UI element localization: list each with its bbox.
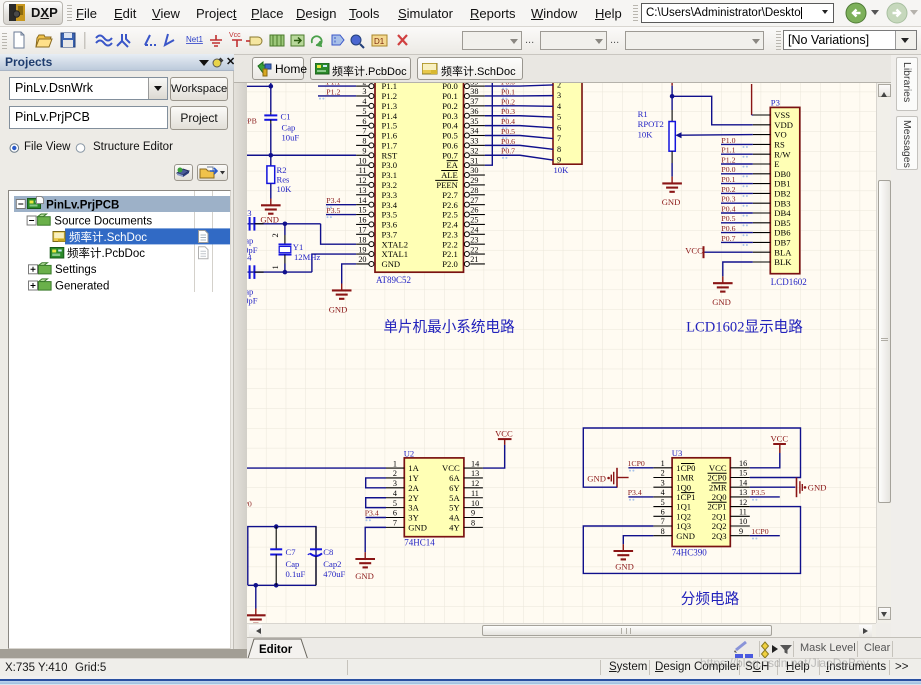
svg-text:16: 16 [739, 459, 747, 468]
svg-text:P3.5: P3.5 [751, 488, 765, 497]
svg-text:P1.3: P1.3 [382, 101, 398, 111]
svg-text:4: 4 [362, 97, 366, 106]
svg-text:P3.1: P3.1 [382, 170, 398, 180]
svg-text:1CP0: 1CP0 [676, 463, 695, 473]
svg-text:DB2: DB2 [774, 189, 790, 199]
svg-text:P3.7: P3.7 [382, 229, 398, 239]
svg-text:PEEN: PEEN [436, 180, 458, 190]
svg-text:GND: GND [587, 474, 606, 484]
svg-text:2Q3: 2Q3 [712, 531, 727, 541]
svg-text:3: 3 [661, 478, 665, 487]
svg-text:8: 8 [362, 137, 366, 146]
svg-text:DB7: DB7 [774, 238, 791, 248]
svg-text:GND: GND [808, 483, 827, 493]
svg-text:P0.1: P0.1 [442, 91, 458, 101]
svg-text:16: 16 [358, 216, 366, 225]
svg-text:P2.4: P2.4 [442, 220, 458, 230]
svg-text:GND: GND [676, 531, 695, 541]
svg-text:25: 25 [470, 216, 478, 225]
svg-text:P1.2: P1.2 [326, 87, 340, 96]
svg-text:P0.1: P0.1 [721, 175, 735, 184]
svg-text:3: 3 [362, 87, 366, 96]
svg-text:22: 22 [470, 245, 478, 254]
svg-text:P0.2: P0.2 [442, 101, 458, 111]
svg-text:5: 5 [362, 107, 366, 116]
svg-text:DB5: DB5 [774, 218, 790, 228]
svg-text:GND: GND [260, 214, 279, 224]
svg-text:17: 17 [358, 226, 366, 235]
svg-text:GND: GND [382, 259, 401, 269]
svg-text:2CP0: 2CP0 [707, 473, 726, 483]
svg-text:C7: C7 [286, 547, 297, 557]
svg-text:P0.0: P0.0 [442, 83, 458, 91]
svg-text:9: 9 [362, 146, 366, 155]
svg-text:P2.7: P2.7 [442, 190, 458, 200]
svg-text:P0.7: P0.7 [721, 234, 735, 243]
svg-text:P0.4: P0.4 [721, 204, 735, 213]
svg-text:2: 2 [661, 469, 665, 478]
svg-text:VCC: VCC [442, 463, 460, 473]
svg-text:3: 3 [557, 91, 561, 100]
svg-text:11: 11 [471, 489, 479, 498]
svg-text:P2.5: P2.5 [442, 210, 458, 220]
svg-text:4: 4 [557, 102, 561, 111]
svg-text:R1: R1 [638, 109, 648, 119]
svg-text:P3.4: P3.4 [326, 196, 340, 205]
svg-text:DB3: DB3 [774, 198, 790, 208]
svg-text:P1.1: P1.1 [382, 83, 398, 91]
svg-text:1CP0: 1CP0 [628, 459, 645, 468]
svg-text:频率计.PcbDoc: 频率计.PcbDoc [67, 246, 145, 260]
svg-text:GND: GND [712, 297, 731, 307]
svg-text:Cap: Cap [286, 559, 300, 569]
svg-text:4: 4 [661, 488, 665, 497]
svg-text:3A: 3A [408, 503, 419, 513]
svg-text:14: 14 [358, 196, 366, 205]
svg-text:11: 11 [739, 508, 747, 517]
svg-text:2: 2 [557, 83, 561, 90]
svg-text:74HC14: 74HC14 [404, 538, 435, 548]
svg-text:38: 38 [470, 87, 478, 96]
svg-text:P0.5: P0.5 [721, 214, 735, 223]
svg-text:P0.5: P0.5 [442, 131, 458, 141]
svg-text:DB1: DB1 [774, 179, 790, 189]
svg-text:5: 5 [557, 113, 561, 122]
svg-text:0.1uF: 0.1uF [286, 569, 306, 579]
svg-text:14: 14 [471, 459, 479, 468]
svg-text:20: 20 [358, 255, 366, 264]
svg-text:P3.4: P3.4 [628, 488, 642, 497]
svg-text:P3.6: P3.6 [382, 220, 398, 230]
svg-text:VCC: VCC [685, 245, 703, 255]
svg-text:28: 28 [470, 186, 478, 195]
svg-text:30pF: 30pF [247, 296, 258, 306]
svg-text:36: 36 [470, 107, 478, 116]
svg-text:8: 8 [661, 527, 665, 536]
svg-text:C1: C1 [281, 112, 291, 122]
svg-text:P0.1: P0.1 [501, 87, 515, 96]
svg-text:5A: 5A [449, 493, 460, 503]
svg-text:P1.2: P1.2 [382, 91, 398, 101]
svg-text:P3.4: P3.4 [382, 200, 398, 210]
svg-text:26: 26 [470, 206, 478, 215]
svg-text:C3: C3 [247, 208, 252, 218]
svg-text:12: 12 [358, 176, 366, 185]
svg-text:Net1: Net1 [186, 35, 203, 44]
svg-text:23: 23 [470, 235, 478, 244]
svg-text:1: 1 [393, 459, 397, 468]
svg-text:P1.1: P1.1 [326, 83, 340, 87]
svg-text:34: 34 [470, 127, 478, 136]
svg-text:P2.2: P2.2 [442, 239, 458, 249]
svg-text:1: 1 [661, 459, 665, 468]
svg-text:19: 19 [358, 245, 366, 254]
svg-text:VO: VO [774, 130, 786, 140]
svg-text:6A: 6A [449, 473, 460, 483]
svg-text:P0.7: P0.7 [442, 150, 458, 160]
svg-text:4: 4 [393, 489, 397, 498]
svg-text:1A: 1A [408, 463, 419, 473]
svg-text:PB: PB [247, 116, 257, 125]
svg-text:GND: GND [355, 571, 374, 581]
svg-text:P0.2: P0.2 [721, 185, 735, 194]
svg-text:LCD1602: LCD1602 [771, 277, 807, 287]
svg-text:2Y: 2Y [408, 493, 419, 503]
svg-text:P1.5: P1.5 [382, 121, 398, 131]
svg-text:EA: EA [446, 160, 458, 170]
svg-text:9: 9 [557, 156, 561, 165]
svg-text:11: 11 [359, 166, 367, 175]
svg-text:Vcc: Vcc [229, 32, 241, 39]
svg-text:1Q1: 1Q1 [676, 502, 691, 512]
svg-text:P2.6: P2.6 [442, 200, 458, 210]
svg-text:GND: GND [408, 522, 427, 532]
svg-text:DB4: DB4 [774, 208, 791, 218]
svg-text:P3.3: P3.3 [382, 190, 398, 200]
svg-text:7: 7 [661, 517, 665, 526]
svg-text:P1.1: P1.1 [721, 146, 735, 155]
svg-text:30: 30 [470, 166, 478, 175]
svg-text:32: 32 [470, 146, 478, 155]
svg-text:Source Documents: Source Documents [54, 216, 152, 228]
svg-text:P0.0: P0.0 [501, 83, 515, 87]
svg-text:GND: GND [615, 561, 634, 571]
svg-text:分频电路: 分频电路 [681, 591, 740, 608]
svg-text:RST: RST [382, 150, 399, 160]
svg-text:35: 35 [470, 117, 478, 126]
svg-text:1CP1: 1CP1 [676, 492, 695, 502]
svg-text:XTAL2: XTAL2 [382, 239, 409, 249]
svg-text:2CP1: 2CP1 [707, 502, 726, 512]
svg-text:BLK: BLK [774, 257, 792, 267]
svg-text:P0.7: P0.7 [501, 147, 515, 156]
svg-text:39: 39 [470, 83, 478, 86]
svg-text:P3.4: P3.4 [365, 509, 379, 518]
svg-text:P0.3: P0.3 [442, 111, 458, 121]
svg-text:2Q1: 2Q1 [712, 511, 727, 521]
svg-text:P0.4: P0.4 [442, 121, 458, 131]
svg-text:10K: 10K [638, 129, 654, 139]
svg-text:1: 1 [270, 265, 280, 269]
svg-text:R/W: R/W [774, 149, 791, 159]
svg-text:470uF: 470uF [323, 569, 345, 579]
svg-text:8: 8 [471, 519, 475, 528]
svg-text:15: 15 [358, 206, 366, 215]
svg-text:GND: GND [329, 305, 348, 315]
svg-text:BLA: BLA [774, 247, 792, 257]
svg-text:7: 7 [557, 134, 561, 143]
svg-text:14: 14 [739, 478, 747, 487]
svg-text:1MR: 1MR [676, 473, 694, 483]
svg-text:P0.3: P0.3 [501, 107, 515, 116]
svg-text:C8: C8 [323, 547, 333, 557]
svg-text:VCC: VCC [770, 433, 788, 443]
svg-text:VDD: VDD [774, 120, 793, 130]
svg-text:P1.2: P1.2 [721, 155, 735, 164]
svg-text:VCC: VCC [495, 429, 513, 439]
svg-text:10K: 10K [554, 165, 570, 175]
svg-text:LCD1602显示电路: LCD1602显示电路 [686, 318, 803, 335]
svg-text:P0.5: P0.5 [501, 127, 515, 136]
svg-text:18: 18 [358, 235, 366, 244]
svg-text:频率计.SchDoc: 频率计.SchDoc [69, 230, 147, 244]
svg-text:33: 33 [470, 137, 478, 146]
svg-text:10: 10 [358, 156, 366, 165]
svg-text:GND: GND [662, 197, 681, 207]
svg-text:6: 6 [557, 123, 561, 132]
svg-text:13: 13 [471, 469, 479, 478]
svg-text:ALE: ALE [441, 170, 458, 180]
svg-text:9: 9 [471, 509, 475, 518]
svg-text:Cap2: Cap2 [323, 559, 341, 569]
svg-text:2: 2 [270, 233, 280, 237]
svg-text:Y1: Y1 [293, 242, 304, 252]
svg-text:24: 24 [470, 226, 478, 235]
svg-text:P0.0: P0.0 [721, 165, 735, 174]
svg-text:P0.6: P0.6 [501, 137, 515, 146]
svg-text:6Y: 6Y [449, 483, 460, 493]
svg-text:D1: D1 [374, 37, 385, 46]
svg-text:P2.1: P2.1 [442, 249, 458, 259]
svg-text:RS: RS [774, 140, 785, 150]
svg-text:DB0: DB0 [774, 169, 790, 179]
svg-text:13: 13 [739, 488, 747, 497]
svg-text:Generated: Generated [55, 280, 109, 292]
svg-text:27: 27 [470, 196, 478, 205]
svg-text:10: 10 [739, 517, 747, 526]
svg-text:P0.2: P0.2 [501, 97, 515, 106]
svg-text:3: 3 [393, 479, 397, 488]
svg-text:P3.0: P3.0 [382, 160, 398, 170]
svg-text:P1.7: P1.7 [382, 140, 398, 150]
svg-text:6: 6 [393, 509, 397, 518]
svg-text:U2: U2 [404, 448, 415, 458]
svg-text:PinLv.PrjPCB: PinLv.PrjPCB [46, 199, 119, 211]
svg-text:P0: P0 [247, 499, 252, 508]
svg-text:P0.4: P0.4 [501, 117, 515, 126]
svg-text:Settings: Settings [55, 264, 97, 276]
svg-text:12MHz: 12MHz [294, 252, 320, 262]
svg-text:9: 9 [739, 527, 743, 536]
svg-text:P0.6: P0.6 [442, 140, 458, 150]
svg-text:2Q2: 2Q2 [712, 521, 727, 531]
svg-text:P0.3: P0.3 [721, 195, 735, 204]
svg-text:AT89C52: AT89C52 [376, 275, 411, 285]
svg-text:P2.3: P2.3 [442, 229, 458, 239]
svg-text:10uF: 10uF [282, 133, 300, 143]
svg-text:5: 5 [393, 499, 397, 508]
svg-text:15: 15 [739, 469, 747, 478]
svg-text:U3: U3 [672, 448, 683, 458]
svg-text:P3: P3 [771, 98, 780, 108]
svg-text:8: 8 [557, 145, 561, 154]
svg-text:13: 13 [358, 186, 366, 195]
svg-text:1Y: 1Y [408, 473, 419, 483]
svg-text:1Q0: 1Q0 [676, 482, 691, 492]
svg-text:P1.6: P1.6 [382, 131, 398, 141]
svg-text:RPOT2: RPOT2 [638, 119, 664, 129]
svg-text:2Q0: 2Q0 [712, 492, 727, 502]
svg-text:P3.5: P3.5 [382, 210, 398, 220]
svg-text:C4: C4 [247, 252, 252, 262]
svg-text:29: 29 [470, 176, 478, 185]
svg-text:31: 31 [470, 156, 478, 165]
svg-text:4A: 4A [449, 513, 460, 523]
svg-text:21: 21 [470, 255, 478, 264]
svg-text:VCC: VCC [709, 463, 727, 473]
svg-text:P0.6: P0.6 [721, 224, 735, 233]
svg-text:5Y: 5Y [449, 503, 460, 513]
svg-text:Cap: Cap [282, 123, 296, 133]
svg-text:XTAL1: XTAL1 [382, 249, 409, 259]
svg-text:5: 5 [661, 498, 665, 507]
svg-text:6: 6 [362, 117, 366, 126]
svg-text:12: 12 [739, 498, 747, 507]
svg-text:7: 7 [393, 519, 397, 528]
svg-text:3Y: 3Y [408, 513, 419, 523]
svg-text:2: 2 [393, 469, 397, 478]
svg-text:10K: 10K [277, 184, 293, 194]
svg-text:VSS: VSS [774, 110, 790, 120]
svg-text:单片机最小系统电路: 单片机最小系统电路 [383, 318, 515, 335]
svg-text:37: 37 [470, 97, 478, 106]
svg-text:7: 7 [362, 127, 366, 136]
svg-text:10: 10 [471, 499, 479, 508]
svg-text:2A: 2A [408, 483, 419, 493]
svg-text:1CP0: 1CP0 [751, 527, 768, 536]
svg-text:2MR: 2MR [709, 482, 727, 492]
svg-text:DB6: DB6 [774, 228, 791, 238]
svg-text:P2.0: P2.0 [442, 259, 458, 269]
svg-text:P1.4: P1.4 [382, 111, 398, 121]
svg-text:12: 12 [471, 479, 479, 488]
svg-text:74HC390: 74HC390 [672, 548, 708, 558]
svg-text:6: 6 [661, 508, 665, 517]
svg-text:P3.2: P3.2 [382, 180, 398, 190]
svg-text:E: E [774, 159, 779, 169]
svg-text:1Q2: 1Q2 [676, 511, 691, 521]
svg-text:P1.0: P1.0 [721, 136, 735, 145]
svg-text:4Y: 4Y [449, 522, 460, 532]
svg-text:1Q3: 1Q3 [676, 521, 691, 531]
svg-text:2: 2 [362, 83, 366, 86]
svg-text:Editor: Editor [259, 644, 293, 656]
